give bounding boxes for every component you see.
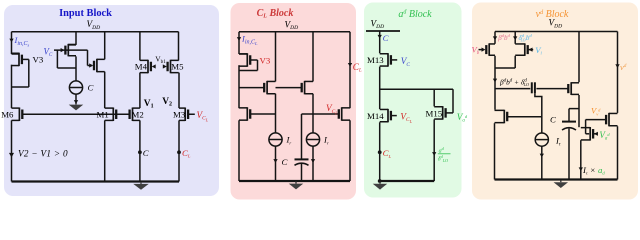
wire: P1-P2 join — [495, 67, 515, 69]
svg-text:C: C — [383, 33, 389, 43]
transistor Pb (CL block) — [339, 107, 350, 121]
wire: M3 drain up to M5 (node V2) — [178, 73, 180, 109]
node dot at ground (ad block) — [378, 179, 382, 183]
current source C (input block) — [69, 81, 82, 94]
transistor Ta (CL block mirror left) — [264, 81, 275, 95]
wire: M1 source to bottom rail — [104, 120, 106, 181]
wire: Pa source to bottom rail — [238, 120, 240, 181]
transistor M4 — [140, 60, 151, 74]
wire: capB riser — [568, 109, 570, 122]
wire: V3cl gate stub — [250, 59, 258, 61]
arrow Iin — [9, 39, 13, 43]
arrow V2-V1 current — [9, 153, 14, 158]
wire: P1 source down — [494, 56, 496, 68]
ground (ad block) — [373, 182, 388, 190]
wire: VDD rail vd block — [495, 31, 618, 33]
wire: rail down to MR drain — [578, 32, 580, 83]
wire: capA right plate to MR gate — [536, 88, 568, 90]
node CL dot (ad block) — [378, 150, 382, 154]
current source Itau (vd block) — [535, 133, 548, 146]
wire: gate line M6-M1-M2 — [22, 113, 130, 115]
wire: V3 source down to M6 drain — [11, 65, 13, 108]
wire: V3cl gate loop bottom — [239, 70, 258, 72]
wire: cap node down to capacitor — [301, 114, 303, 159]
wire: MT source to bottom rail — [617, 126, 619, 179]
wire: rail down to P1 — [494, 32, 496, 44]
wire: M15 gate stub — [445, 112, 453, 114]
svg-text:M6: M6 — [1, 110, 14, 120]
svg-text:M15: M15 — [426, 109, 443, 119]
svg-text:M1: M1 — [97, 110, 109, 120]
arrow Iin CL — [237, 37, 241, 41]
wire: rail down to P2 — [514, 32, 516, 44]
transistor MT (vd block) — [606, 113, 617, 127]
wire: rail down to Tb drain — [312, 32, 314, 82]
wire: Tb gate from Ta chain — [276, 87, 303, 89]
ground (input block bottom) — [133, 182, 149, 190]
wire: bottom rail vd block — [495, 178, 618, 180]
wire: Pb gate line to cap node — [302, 113, 340, 115]
svg-text:V2 − V1 > 0: V2 − V1 > 0 — [18, 149, 68, 159]
ground (input block middle) — [69, 103, 84, 111]
arrow CL output current — [348, 63, 352, 67]
current source Ir 2 (CL block) — [306, 133, 319, 146]
transistor M2 — [130, 108, 140, 122]
wire: rail down to VC-diode drain — [75, 32, 77, 45]
arrow under Itau — [540, 154, 544, 158]
wire: M3 gate stub — [188, 113, 195, 115]
wire: MX source down to M1 drain — [104, 72, 106, 108]
capacitor A (series, vd block) — [532, 82, 535, 93]
wire: ML gate to Itau node — [508, 116, 542, 118]
wire: VC bend down to MX gate — [87, 50, 89, 65]
ground (CL block) — [289, 182, 304, 190]
capacitor C (CL block) — [295, 159, 309, 165]
wire: M15 source to bottom rail — [433, 119, 435, 181]
svg-text:C: C — [282, 157, 288, 167]
svg-text:M5: M5 — [171, 62, 184, 72]
transistor P1 (vd block) — [486, 43, 495, 56]
wire: cap bottom to rail — [301, 164, 303, 181]
wire: VDD rail ad block — [366, 30, 400, 32]
capacitor B (C, vd block) — [562, 122, 576, 130]
wire: to MB gate bar — [586, 133, 590, 135]
svg-text:βdbd + δdLO: βdbd + δdLO — [499, 78, 529, 88]
wire: node to capA left plate — [495, 88, 530, 90]
transistor Tb (CL block mirror right) — [302, 81, 313, 95]
wire: capA step down to Itau — [535, 93, 542, 133]
arrow beta-d branch — [493, 36, 497, 40]
wire: P2 source down — [514, 56, 516, 68]
wire: Tb source down to current source 2 — [312, 94, 314, 133]
wire: rail down to M13 — [379, 31, 381, 53]
svg-text:CL Block: CL Block — [257, 8, 294, 20]
wire: join down to ML drain — [494, 68, 496, 110]
wire: M14 gate stub — [390, 115, 396, 117]
svg-text:M14: M14 — [367, 111, 384, 121]
wire: Vb stub — [479, 49, 483, 51]
wire: VC node line to MX gate bend — [54, 49, 88, 51]
wire: M6 source to bottom rail — [11, 120, 13, 181]
wire: VC U-loop down — [56, 50, 58, 68]
wire: VDD rail CL block — [239, 31, 350, 33]
svg-text:M3: M3 — [173, 110, 186, 120]
arrow cs2 — [311, 159, 315, 163]
wire: current source to ground — [75, 94, 77, 104]
node C dot — [138, 150, 142, 154]
arrow sum current — [493, 79, 497, 83]
wire: V3cl gate loop down — [257, 60, 259, 71]
wire: V3 gate loop down — [28, 59, 30, 87]
arrow C branch — [378, 35, 382, 39]
wire: rail corner down to Pb drain (CL out) — [349, 32, 351, 108]
ad Block background — [364, 3, 462, 198]
arrow vd output — [615, 64, 619, 68]
wire: VC U-loop bottom — [57, 67, 76, 69]
wire: P2 gate stub — [527, 49, 533, 51]
svg-text:V3: V3 — [33, 55, 44, 65]
transistor M14 — [380, 109, 391, 123]
Input Block background — [4, 5, 219, 196]
wire: rail down to M5 — [178, 32, 180, 61]
wire: V3 gate stub — [21, 58, 28, 60]
transistor M1 — [105, 108, 117, 122]
arrow to ground — [74, 100, 78, 104]
wire: junction line M13-M15 — [380, 88, 453, 90]
transistor Pa (CL block) — [239, 107, 250, 121]
transistor M3 — [179, 108, 188, 122]
wire: Ta source down to current source 1 — [275, 94, 277, 133]
wire: V3 drain arm stub — [12, 53, 20, 55]
wire: cs2 to bottom rail — [312, 146, 314, 181]
wire: bottom rail input block — [12, 180, 180, 182]
wire: rail down to V3 drain — [11, 32, 13, 54]
transistor ML (vd block) — [495, 110, 508, 124]
transistor P2 (vd block) — [515, 43, 528, 56]
ground (vd block) — [554, 180, 569, 188]
svg-text:Iτ × ad: Iτ × ad — [582, 165, 605, 176]
transistor MX (input block, VC-driven) — [94, 59, 105, 73]
wire: V3cl drain arm — [239, 53, 247, 55]
svg-text:M4: M4 — [135, 62, 148, 72]
transistor MB (vd block) — [581, 127, 593, 141]
svg-text:M2: M2 — [132, 110, 144, 120]
wire: M14 source to bottom rail — [379, 122, 381, 181]
wire: bottom rail ad block — [380, 180, 435, 182]
wire: MX gate stub — [88, 65, 93, 67]
wire: V3 gate loop bottom — [12, 86, 29, 88]
vd Block background — [472, 3, 638, 200]
svg-text:V3: V3 — [260, 56, 271, 66]
transistor M5 — [168, 60, 179, 74]
svg-text:C: C — [143, 148, 149, 158]
wire: rail down to M4 — [139, 32, 141, 61]
wire: M15 drain up to junction — [433, 89, 435, 106]
wire: MB source to bottom rail — [580, 140, 582, 179]
svg-text:Input Block: Input Block — [59, 8, 112, 19]
svg-text:C: C — [88, 83, 94, 93]
wire: M15 gate loop up — [452, 89, 454, 113]
wire: rail down to MX drain — [104, 32, 106, 60]
svg-text:C: C — [550, 115, 556, 125]
wire: Itau to bottom rail — [541, 146, 543, 179]
wire: M2 source down to bottom rail — [139, 120, 141, 181]
wire: left chain down to Pa — [238, 65, 240, 108]
wire: M13 source down to M14 drain — [379, 67, 381, 109]
arrow cs1 — [273, 159, 277, 163]
wire: rail down to V3 (CL) — [238, 32, 240, 54]
wire: MT gate left — [586, 119, 607, 121]
wire: Pa gate to Ta chain — [250, 113, 276, 115]
svg-text:M13: M13 — [367, 55, 384, 65]
wire: cs1 to bottom rail — [275, 146, 277, 181]
arrow ad current — [432, 152, 436, 156]
wire: VDD rail input block — [12, 31, 179, 33]
wire: capB bottom to rail — [568, 129, 570, 180]
wire: MB gate stub right — [593, 133, 598, 135]
CL Block background — [231, 3, 357, 200]
arrow Itau x ad — [579, 167, 583, 171]
wire: bottom rail CL block — [239, 180, 350, 182]
transistor V3 (CL block) — [239, 53, 250, 67]
transistor V3 (input block, diode-connected) — [12, 53, 22, 67]
transistor M15 — [434, 106, 445, 120]
wire: VC-diode drain arm — [68, 44, 76, 46]
wire: Pb source to bottom rail — [349, 120, 351, 181]
wire: MR source down to MB drain — [578, 95, 580, 127]
arrow delta-d branch — [513, 36, 517, 40]
wire: MT gate down to MB gate — [585, 120, 587, 134]
wire: M2 drain up to M4 (node V1) — [139, 73, 141, 109]
wire: Ta gate from left chain — [239, 87, 265, 89]
wire: rail corner down to MT drain (vd out) — [617, 32, 619, 113]
transistor M6 — [12, 108, 23, 122]
wire: rail down to Ta drain — [275, 32, 277, 82]
wire: capB tee from MR chain — [569, 108, 579, 110]
wire: ML source to bottom rail — [494, 123, 496, 179]
wire: VC-diode source down to current source — [75, 56, 77, 81]
transistor M13 — [380, 53, 391, 67]
node CL dot — [177, 150, 181, 154]
wire: M3 source down to bottom rail — [178, 120, 180, 181]
wire: M13 gate stub — [390, 59, 397, 61]
transistor VC diode (input block) — [65, 44, 76, 57]
current source Ir 1 (CL block) — [269, 133, 282, 146]
transistor MR (vd block) — [568, 82, 579, 95]
